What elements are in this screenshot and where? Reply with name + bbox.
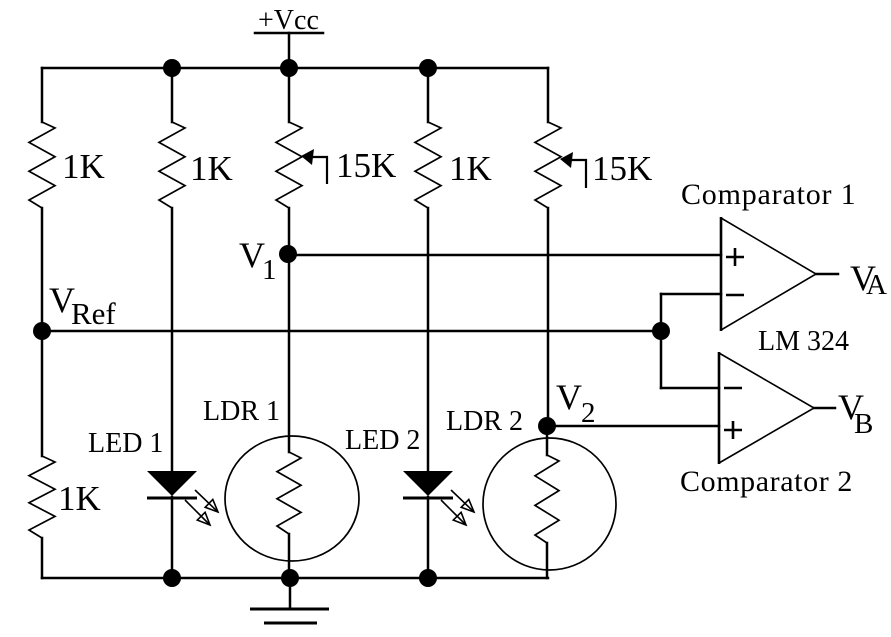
svg-text:LDR 1: LDR 1 (203, 396, 280, 427)
svg-text:LM 324: LM 324 (758, 326, 849, 357)
svg-text:+Vcc: +Vcc (258, 5, 319, 36)
svg-text:15K: 15K (336, 146, 396, 185)
svg-text:1K: 1K (190, 149, 233, 188)
svg-text:LED 1: LED 1 (88, 428, 163, 459)
svg-text:1K: 1K (449, 149, 492, 188)
svg-text:V: V (556, 377, 582, 417)
svg-text:1: 1 (262, 254, 277, 286)
svg-text:2: 2 (581, 397, 596, 429)
svg-text:B: B (854, 408, 873, 440)
svg-text:15K: 15K (592, 149, 652, 188)
svg-text:1K: 1K (62, 147, 105, 186)
svg-text:1K: 1K (58, 479, 101, 518)
svg-text:LED 2: LED 2 (345, 425, 420, 456)
svg-text:LDR 2: LDR 2 (446, 406, 523, 437)
svg-text:A: A (866, 269, 887, 301)
svg-text:Ref: Ref (71, 296, 116, 331)
svg-text:Comparator 2: Comparator 2 (680, 465, 853, 498)
svg-text:Comparator 1: Comparator 1 (681, 178, 856, 211)
